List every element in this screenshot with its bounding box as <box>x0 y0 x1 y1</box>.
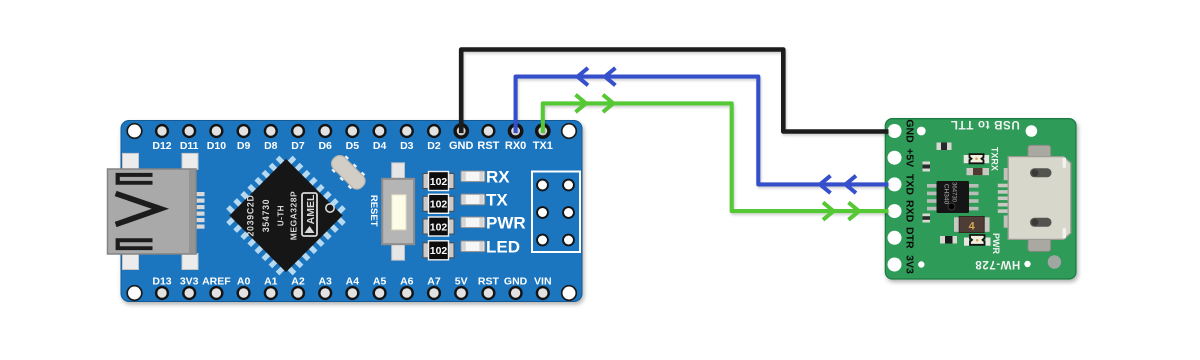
arrow green top-1 <box>576 95 587 112</box>
svg-text:RX: RX <box>486 167 510 186</box>
svg-text:4: 4 <box>969 221 976 233</box>
pin TXD (USB-TTL) <box>888 174 916 195</box>
IC U1 ATmega328P pads <box>220 149 353 282</box>
svg-text:D9: D9 <box>237 140 251 152</box>
svg-text:CH340: CH340 <box>943 184 950 205</box>
wire GND (black) Nano GND to TTL GND <box>461 50 888 134</box>
pin AREF (bottom row) <box>202 275 231 300</box>
svg-text:102: 102 <box>430 245 448 257</box>
pin A4 (bottom row) <box>345 275 359 300</box>
crystal Y1 <box>327 151 370 194</box>
arrow green top-2 <box>603 95 614 112</box>
svg-text:354730: 354730 <box>261 199 271 233</box>
micro-USB connector J2 body <box>1008 157 1071 240</box>
pin GND (bottom row) <box>504 275 528 300</box>
micro-USB connector J2 rim slits <box>1063 158 1066 239</box>
mounting hole bottom-right (gray) <box>1048 255 1061 268</box>
svg-text:D10: D10 <box>207 140 226 152</box>
pin 3V3 (USB-TTL) <box>888 255 916 274</box>
LED TX <box>461 194 485 205</box>
reset button SW1 <box>382 163 414 260</box>
Arduino Nano board <box>121 121 582 302</box>
svg-text:GND: GND <box>904 119 916 143</box>
pin D3 (top row) <box>400 124 414 152</box>
wire RX (blue) Nano RX0 to TTL TXD <box>516 77 889 185</box>
arrow blue top-2 <box>605 68 616 85</box>
pin 5V (bottom row) <box>454 275 468 300</box>
svg-text:TXD: TXD <box>904 174 916 195</box>
svg-text:A5: A5 <box>373 275 387 287</box>
pin RXD (USB-TTL) <box>888 200 916 223</box>
svg-text:LED: LED <box>486 237 520 256</box>
svg-text:102: 102 <box>430 176 448 188</box>
svg-text:D12: D12 <box>152 140 171 152</box>
svg-text:A1: A1 <box>264 275 278 287</box>
capacitor C1 <box>937 143 952 151</box>
mini-USB connector J1 body <box>108 169 197 254</box>
mini-USB connector J1 solder pads <box>196 192 205 229</box>
svg-text:RST: RST <box>478 275 500 287</box>
svg-text:D7: D7 <box>291 140 305 152</box>
IC U2 CH340 pins <box>927 184 979 210</box>
capacitor C2 <box>923 162 931 172</box>
svg-text:TX1: TX1 <box>533 140 553 152</box>
svg-text:D6: D6 <box>318 140 332 152</box>
resistor 102 (TX row) <box>423 194 454 213</box>
LED LED <box>461 241 485 252</box>
svg-text:PWR: PWR <box>991 233 1001 254</box>
capacitor C5 <box>940 236 957 244</box>
pin D2 (top row) <box>427 124 441 152</box>
pin TX1 (top row) <box>533 123 553 152</box>
micro-USB connector J2 side feet <box>1004 168 1010 228</box>
arrow green bottom-1 <box>823 202 834 219</box>
svg-text:PWR: PWR <box>486 213 526 232</box>
arrow blue bottom-2 <box>846 176 857 193</box>
hole near GND <box>917 127 926 136</box>
pin RST (bottom row) <box>478 275 500 300</box>
arrow blue top-1 <box>578 68 589 85</box>
pin D7 (top row) <box>291 124 305 152</box>
pin A7 (bottom row) <box>427 275 441 300</box>
svg-text:A7: A7 <box>427 275 441 287</box>
mini-USB connector J1 mounting tabs <box>123 153 199 269</box>
svg-text:364730: 364730 <box>951 182 957 203</box>
svg-text:HW-728: HW-728 <box>975 258 1021 270</box>
pin D5 (top row) <box>345 124 359 152</box>
svg-text:GND: GND <box>504 275 528 287</box>
pin D12 (top row) <box>152 124 171 152</box>
wire TX (green) Nano TX1 to TTL RXD <box>543 103 889 211</box>
pin D9 (top row) <box>237 124 251 152</box>
svg-text:DTR: DTR <box>904 227 916 249</box>
mini-USB USB logo bottom bracket <box>116 238 153 250</box>
svg-text:RST: RST <box>477 140 499 152</box>
svg-text:A2: A2 <box>291 275 305 287</box>
svg-text:U-TH: U-TH <box>277 205 286 226</box>
svg-text:102: 102 <box>430 221 448 233</box>
pin A6 (bottom row) <box>400 275 414 300</box>
svg-text:3V3: 3V3 <box>904 255 916 274</box>
IC U2 CH340 body <box>937 181 970 213</box>
mini-USB USB logo chevron <box>116 194 161 225</box>
resistor 102 (PWR row) <box>423 217 454 236</box>
pin A2 (bottom row) <box>291 275 305 300</box>
svg-text:A6: A6 <box>400 275 414 287</box>
svg-text:5V: 5V <box>455 275 468 287</box>
svg-text:102: 102 <box>430 199 448 211</box>
pin GND (USB-TTL) <box>888 119 916 143</box>
mounting hole bottom-right <box>562 286 577 301</box>
LED PWR <box>461 217 485 228</box>
pin GND (top row) <box>449 123 474 152</box>
hole top-right <box>1026 125 1038 137</box>
svg-text:A4: A4 <box>346 275 360 287</box>
pin D11 (top row) <box>180 124 199 152</box>
svg-text:RX0: RX0 <box>505 140 526 152</box>
svg-text:D3: D3 <box>400 140 414 152</box>
svg-text:2039C2D: 2039C2D <box>246 194 256 236</box>
resistor R1 (TTL) <box>967 168 990 175</box>
pin D8 (top row) <box>264 124 278 152</box>
ICSP pin r2c1 <box>536 206 549 219</box>
svg-text:GND: GND <box>449 140 474 152</box>
svg-text:+5V: +5V <box>904 148 916 167</box>
resistor 102 (LED row) <box>423 241 454 260</box>
pin D10 (top row) <box>207 124 226 152</box>
IC U1 ATmega328P markings <box>246 191 335 240</box>
hole right of HW-728 <box>1024 261 1030 267</box>
svg-text:AREF: AREF <box>202 275 231 287</box>
resistor 102 (RX row) <box>423 172 454 191</box>
mounting hole top-left <box>127 124 142 139</box>
svg-text:D13: D13 <box>152 275 171 287</box>
pin A5 (bottom row) <box>373 275 387 300</box>
pin D4 (top row) <box>373 124 387 152</box>
mounting hole top-right <box>562 124 577 139</box>
svg-text:D2: D2 <box>427 140 441 152</box>
micro-USB connector J2 mounting tabs <box>1028 145 1051 251</box>
LED TXRX <box>964 154 989 163</box>
arrow green bottom-2 <box>849 202 860 219</box>
pin 3V3 (bottom row) <box>180 275 199 300</box>
pin RX0 (top row) <box>505 123 526 152</box>
ICSP pin r1c1 <box>536 179 549 192</box>
ICSP pin r3c1 <box>536 234 549 247</box>
micro-USB connector J2 pins <box>998 184 1009 213</box>
svg-text:AMEL: AMEL <box>305 194 317 224</box>
ICSP pin r1c2 <box>562 179 575 192</box>
pin RST (top row) <box>477 124 499 152</box>
svg-text:RESET: RESET <box>368 195 379 227</box>
svg-text:RXD: RXD <box>904 200 916 223</box>
svg-text:D8: D8 <box>264 140 278 152</box>
svg-text:USB to TTL: USB to TTL <box>950 118 1020 130</box>
pin D6 (top row) <box>318 124 332 152</box>
svg-text:TX: TX <box>486 190 508 209</box>
svg-text:A3: A3 <box>318 275 332 287</box>
pin DTR (USB-TTL) <box>888 227 916 249</box>
resistor network RN1 value 4 <box>954 217 990 233</box>
ICSP pin r2c2 <box>562 206 575 219</box>
micro-USB connector J2 contact dots <box>1032 169 1039 225</box>
pin D13 (bottom row) <box>152 275 171 300</box>
pin +5V (USB-TTL) <box>888 148 916 167</box>
arrow blue bottom-1 <box>820 176 831 193</box>
mini-USB USB logo top bracket <box>116 173 153 185</box>
svg-text:D5: D5 <box>346 140 360 152</box>
IC U1 ATmega328P body <box>229 159 342 272</box>
svg-text:A0: A0 <box>237 275 251 287</box>
pin A0 (bottom row) <box>237 275 251 300</box>
ICSP header outline <box>532 172 580 253</box>
IC U2 CH340 pin-1 dot <box>948 203 955 210</box>
mounting hole bottom-left <box>127 286 142 301</box>
svg-text:D11: D11 <box>180 140 199 152</box>
svg-text:D4: D4 <box>373 140 387 152</box>
hole near 3V3 <box>918 261 924 267</box>
LED PWR <box>964 235 991 246</box>
micro-USB connector J2 contact slots <box>1030 168 1052 227</box>
pin A1 (bottom row) <box>264 275 278 300</box>
pin A3 (bottom row) <box>318 275 332 300</box>
svg-text:3V3: 3V3 <box>180 275 199 287</box>
pin VIN (bottom row) <box>534 275 552 300</box>
svg-text:MEGA328P: MEGA328P <box>289 191 299 240</box>
svg-text:VIN: VIN <box>534 275 552 287</box>
LED RX <box>461 171 485 182</box>
svg-text:TXRX: TXRX <box>990 147 1000 171</box>
USB to TTL adapter board HW-728 <box>885 119 1076 279</box>
capacitor C4 <box>923 214 931 223</box>
ICSP pin r3c2 <box>562 234 575 247</box>
